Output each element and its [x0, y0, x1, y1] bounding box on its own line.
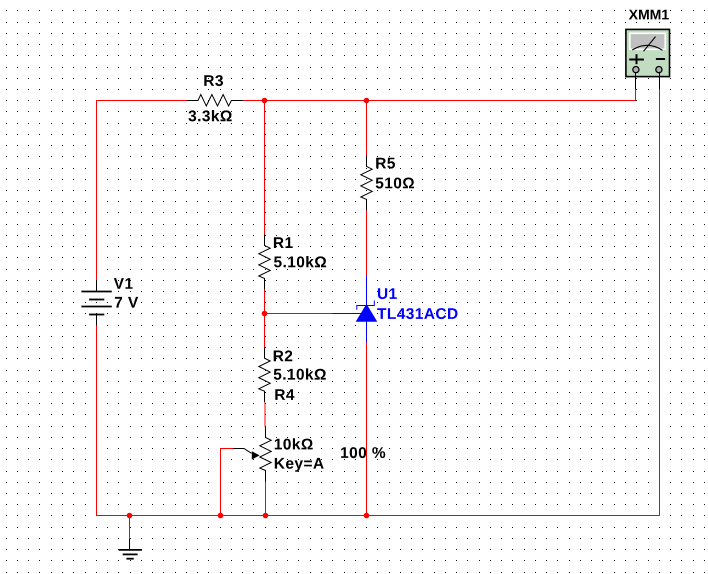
- label 100 percent: [341, 447, 385, 458]
- shunt regulator U1 TL431 cathode pin: [366, 275, 368, 306]
- label Key=A: [275, 458, 324, 472]
- junction node ref: [262, 311, 268, 317]
- wire top rail left segment: [97, 100, 188, 102]
- label XMM1: [629, 10, 669, 20]
- R4 wiper arm: [233, 449, 252, 454]
- resistor R2: [259, 347, 270, 402]
- wire R5 top feed: [366, 100, 368, 155]
- wire ground feed: [129, 516, 131, 539]
- junction node R4 bottom: [263, 513, 269, 519]
- wire right branch: [659, 89, 661, 516]
- junction node U1 anode: [364, 513, 370, 519]
- wire R1 to R2: [264, 289, 266, 347]
- potentiometer R4: [260, 427, 271, 482]
- U1 anode pin: [366, 321, 368, 343]
- value TL431ACD: [377, 308, 457, 319]
- U1 ref pin: [333, 313, 361, 315]
- junction node R3 R1: [262, 98, 268, 104]
- R4 wiper arrowhead: [252, 451, 260, 459]
- label V1: [114, 278, 133, 289]
- U1 top bracket: [357, 301, 375, 310]
- wire left branch lower: [96, 325, 98, 515]
- wire R4 to bottom rail: [265, 482, 267, 516]
- value 3.3kOhm: [189, 110, 232, 121]
- wire R5 to U1 cathode: [366, 210, 368, 275]
- wire node to U1 ref: [265, 313, 333, 315]
- wire R4 wiper vertical: [220, 449, 222, 516]
- XMM1 minus terminal: [656, 67, 662, 73]
- battery V1: [81, 280, 111, 326]
- wire R2 to R4: [264, 402, 266, 427]
- label R4: [275, 389, 294, 400]
- label R3: [204, 75, 223, 86]
- XMM1 minus pin: [659, 73, 661, 90]
- value 5.10kOhm R1: [274, 256, 326, 267]
- wire top rail right segment: [243, 100, 636, 102]
- ground: [119, 539, 142, 559]
- label R2: [274, 350, 293, 361]
- wire R4 wiper horizontal red: [220, 448, 233, 450]
- resistor R1: [259, 234, 270, 289]
- value 10kOhm: [275, 438, 313, 449]
- wire left branch upper: [96, 100, 98, 280]
- value 7 V: [115, 297, 138, 308]
- XMM1 plus pin: [635, 73, 637, 90]
- U1 triangle: [356, 305, 376, 322]
- wire R1 top feed: [264, 100, 266, 234]
- XMM1 plus terminal: [633, 67, 639, 73]
- junction node ground: [127, 513, 133, 519]
- wire U1 anode down: [366, 343, 368, 516]
- resistor R3: [187, 95, 243, 107]
- label R1: [274, 237, 293, 248]
- value 510Ohm: [376, 178, 414, 189]
- multimeter XMM1 body: [626, 29, 670, 76]
- junction node R5 top: [364, 98, 370, 104]
- wire bottom rail: [96, 515, 660, 517]
- label R5: [376, 158, 395, 169]
- wire multimeter plus drop: [635, 89, 637, 101]
- junction node wiper: [218, 513, 224, 519]
- resistor R5: [361, 155, 372, 210]
- label U1: [378, 288, 397, 299]
- value 5.10kOhm R2: [274, 368, 326, 379]
